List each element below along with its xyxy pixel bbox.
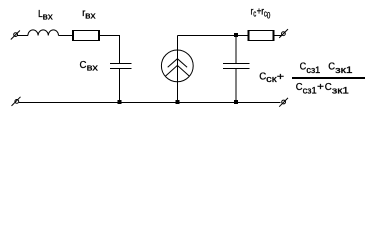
svg-text:вх: вх <box>43 11 53 22</box>
svg-text:+: + <box>277 71 284 83</box>
svg-text:сз1: сз1 <box>306 65 320 76</box>
svg-text:+: + <box>317 81 324 93</box>
svg-text:вх: вх <box>87 63 99 74</box>
svg-text:0: 0 <box>267 11 271 22</box>
svg-text:зк1: зк1 <box>335 65 352 76</box>
svg-text:зк1: зк1 <box>332 85 349 96</box>
svg-text:сз1: сз1 <box>303 85 317 96</box>
svg-text:вх: вх <box>85 11 96 22</box>
